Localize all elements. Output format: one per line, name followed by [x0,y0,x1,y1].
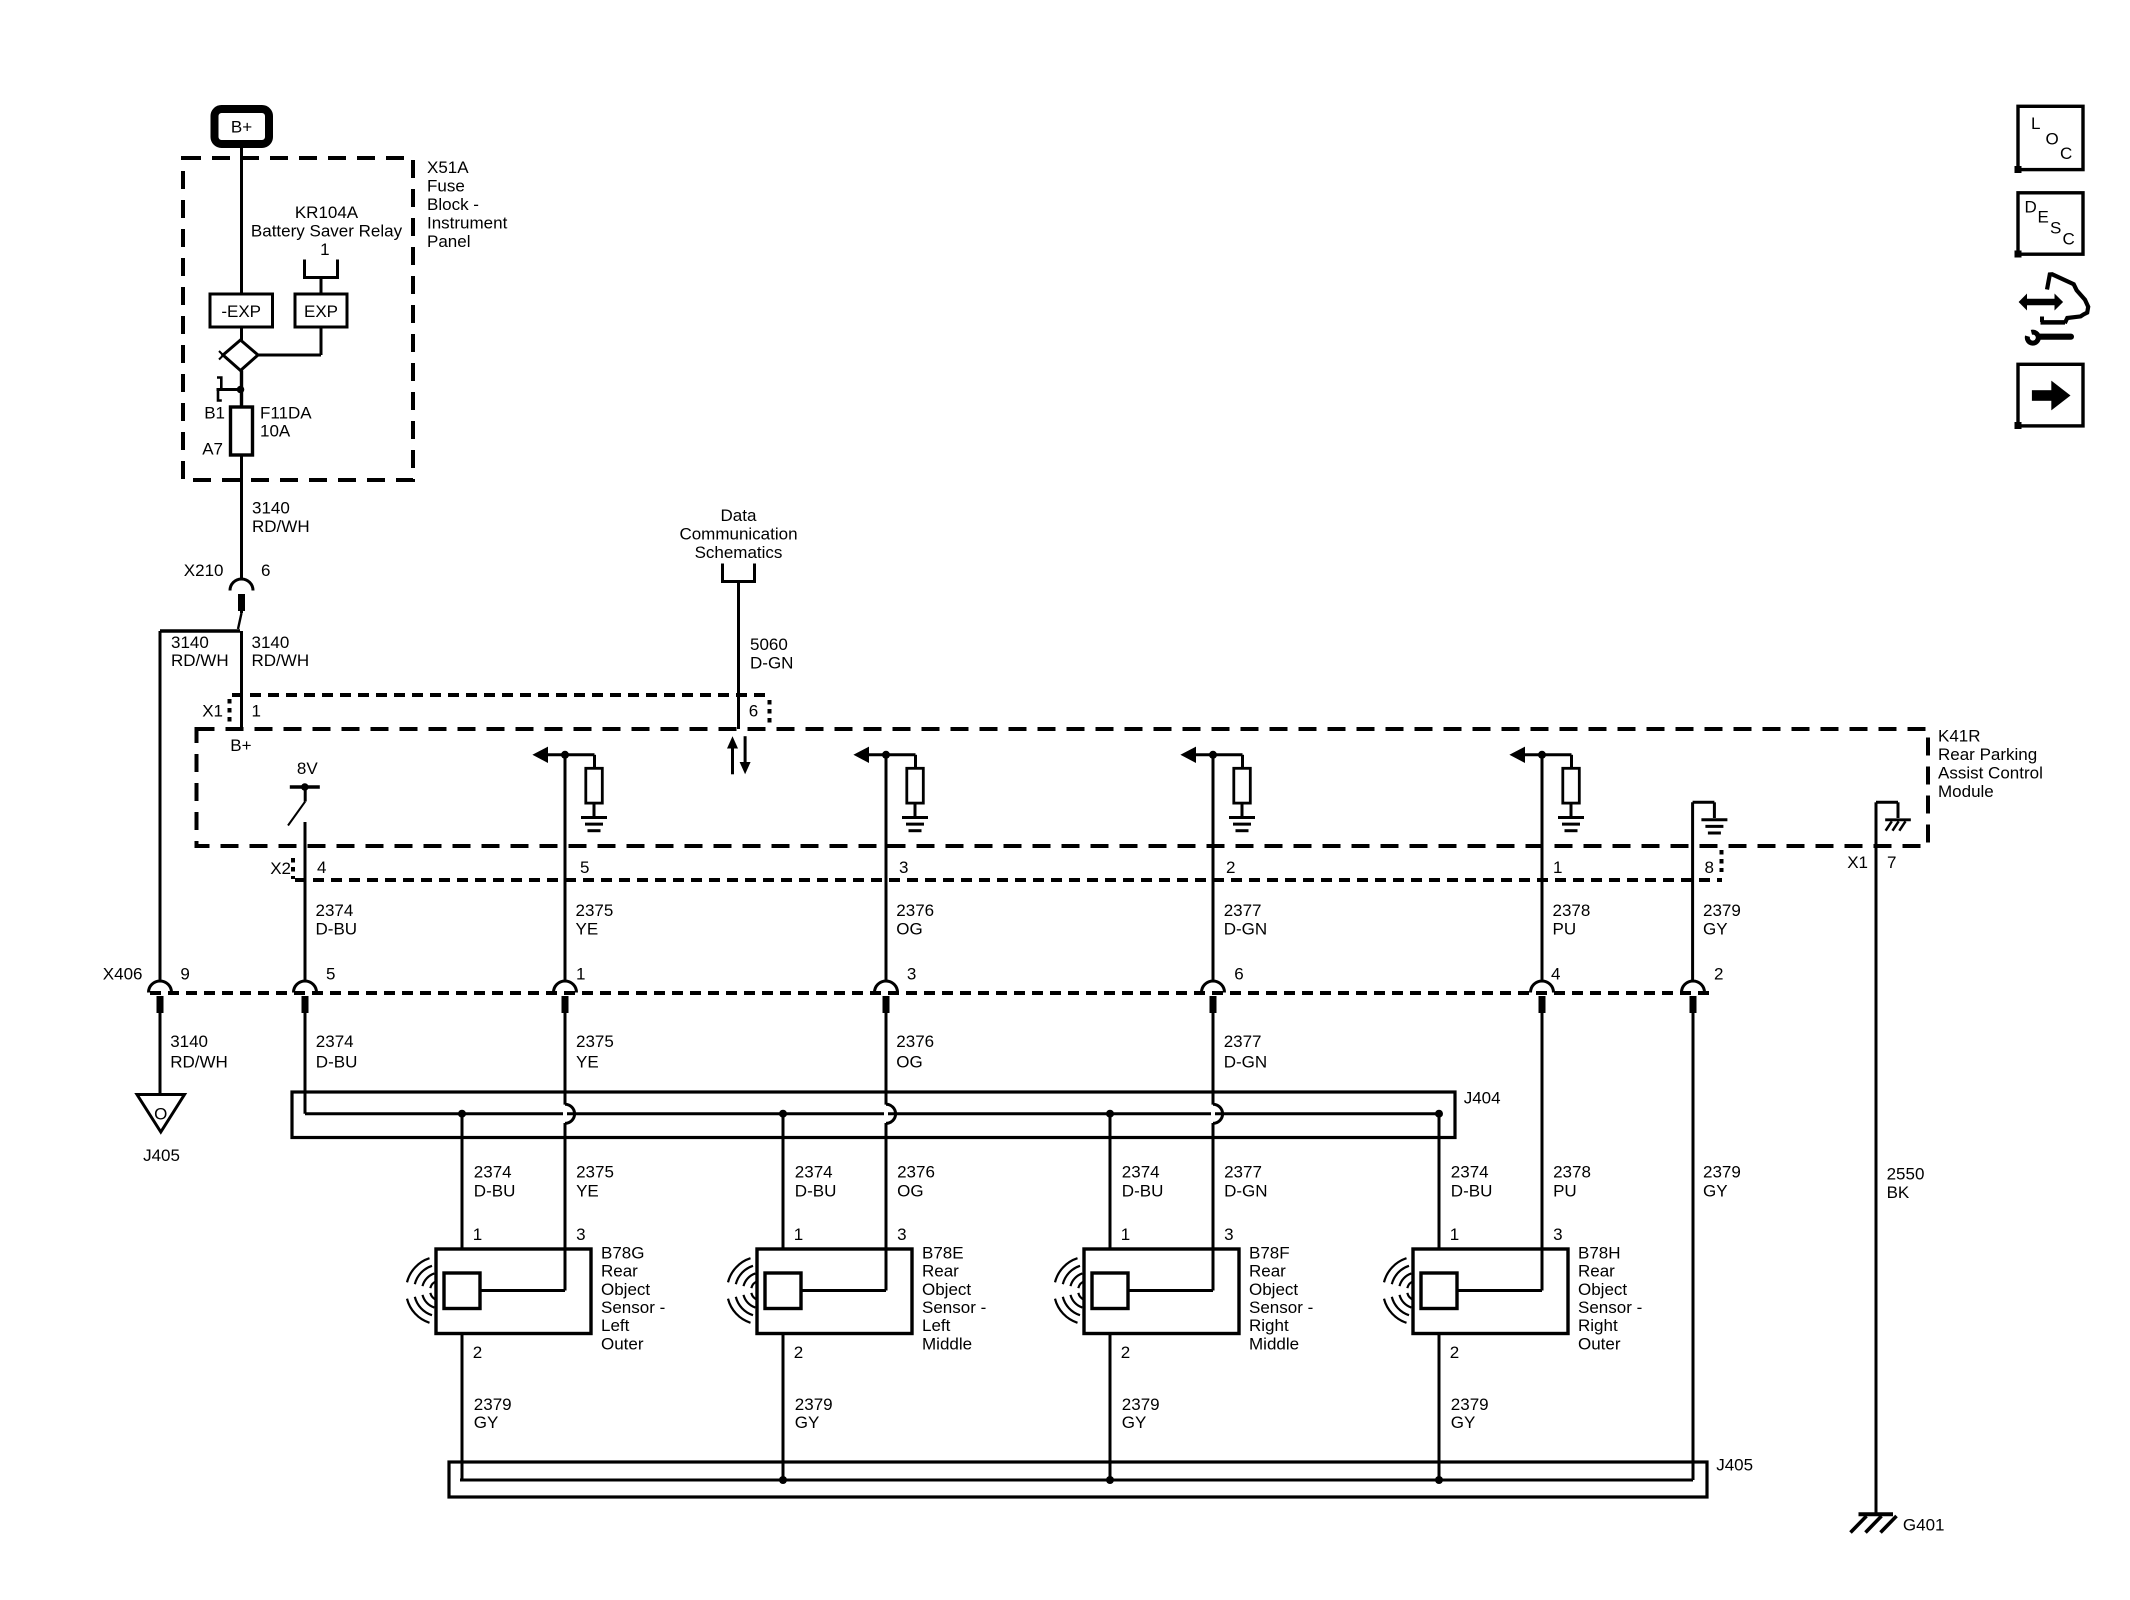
connector X406 terminal at x=1542 [1531,981,1554,1013]
junction clip symbol [217,378,241,401]
svg-text:GY: GY [795,1413,820,1432]
svg-text:10A: 10A [260,422,291,441]
icon button DESC [2015,193,2084,258]
rear object sensor B78H box [1413,1249,1568,1334]
svg-text:2379: 2379 [1451,1395,1489,1414]
switch 8V supply [288,759,320,826]
svg-text:7: 7 [1887,853,1896,872]
svg-text:Battery Saver Relay: Battery Saver Relay [251,222,403,241]
label 3140 RD/WH [252,499,310,537]
ultrasonic waves icon (B78E) [728,1258,758,1323]
svg-text:Sensor -: Sensor - [1249,1298,1313,1317]
connector X210 pin 6 [184,561,271,611]
wire X210 to K41R module [238,608,242,729]
labels circuits 2374-2379 above X406 [316,901,1741,939]
svg-text:3140: 3140 [170,1032,208,1051]
svg-text:Rear Parking: Rear Parking [1938,745,2037,764]
connector X406 terminal at x=160 [149,981,172,1013]
svg-text:2374: 2374 [795,1163,833,1182]
connector line X406 [150,991,1710,995]
svg-text:5: 5 [326,965,335,984]
label 5060 D-GN [750,635,793,673]
svg-text:C: C [2063,230,2075,249]
wire channel c from module to X406 [1212,755,1215,980]
svg-text:X1: X1 [1847,853,1868,872]
wire 8V switch to X2 pin 4 [304,822,307,980]
wire hop over J404 bus at x=1213 [1211,1104,1223,1124]
wire from B+ to fuse block [240,148,243,294]
ultrasonic waves icon (B78G) [407,1258,437,1323]
svg-text:D-BU: D-BU [1122,1182,1164,1201]
svg-text:2375: 2375 [576,1163,614,1182]
module internal chassis ground (pin 7) [1876,802,1911,846]
wire sensor B78H pin 2 to J405, circuit 2379 GY [1439,1334,1489,1481]
svg-text:3140: 3140 [252,499,290,518]
svg-text:2377: 2377 [1224,1163,1262,1182]
svg-text:3: 3 [897,1225,906,1244]
wire channel a from module to X406 [564,755,567,980]
module output channel b: arrow, pull-up resistor and ground [853,747,928,831]
svg-text:4: 4 [1551,965,1560,984]
labels circuits below J404 for sensor B78F [1122,1163,1268,1201]
connector line X1 [230,695,771,724]
label Data Communication Schematics [679,506,797,562]
serial data double arrow [727,736,751,774]
svg-text:B78G: B78G [601,1243,644,1262]
svg-text:2375: 2375 [576,901,614,920]
svg-text:Block -: Block - [427,195,479,214]
svg-text:2374: 2374 [1451,1163,1489,1182]
svg-text:YE: YE [576,1182,599,1201]
svg-text:GY: GY [1122,1413,1147,1432]
svg-text:OG: OG [896,920,922,939]
svg-text:1: 1 [1121,1225,1130,1244]
svg-text:X406: X406 [103,965,143,984]
icon button LOC [2015,106,2084,173]
fuse labels B1 A7 F11DA 10A [202,404,312,459]
svg-text:2379: 2379 [1703,901,1741,920]
wire sensor B78E pin 2 to J405, circuit 2379 GY [783,1334,833,1481]
svg-text:J405: J405 [1716,1455,1753,1474]
svg-text:2374: 2374 [316,1032,354,1051]
off-page bracket data communication [723,564,755,582]
svg-text:2: 2 [1226,858,1235,877]
svg-text:D-GN: D-GN [1224,920,1267,939]
svg-text:KR104A: KR104A [295,203,359,222]
svg-text:B78F: B78F [1249,1243,1290,1262]
svg-text:GY: GY [1703,1182,1728,1201]
svg-text:5: 5 [580,858,589,877]
svg-text:2376: 2376 [896,1032,934,1051]
wire serial data 5060 D-GN [737,582,740,730]
wire diamond to fuse F11DA [240,371,243,408]
svg-text:D-BU: D-BU [316,1053,358,1072]
labels circuits below J404 for sensor B78G [474,1163,614,1201]
power symbol B+ [215,109,270,144]
wire hop over J404 bus at x=565 [563,1104,575,1124]
svg-text:2374: 2374 [316,901,354,920]
svg-text:B+: B+ [231,118,252,137]
svg-text:D-GN: D-GN [1224,1053,1267,1072]
module output channel c: arrow, pull-up resistor and ground [1180,747,1255,831]
svg-text:S: S [2050,219,2061,238]
diamond junction node [219,340,258,371]
label X51A Fuse Block - Instrument Panel [427,158,508,251]
junction dot on J405 at x=1110 [1106,1476,1114,1484]
ultrasonic waves icon (B78F) [1055,1258,1085,1323]
relay KR104A coil bracket [305,260,338,295]
svg-text:O: O [2046,130,2059,149]
svg-text:8V: 8V [297,759,318,778]
svg-text:B1: B1 [204,404,225,423]
svg-text:OG: OG [896,1053,922,1072]
svg-text:1: 1 [320,240,329,259]
svg-text:Left: Left [922,1316,951,1335]
svg-text:B+: B+ [230,736,251,755]
connector X406 terminal at x=886 [875,981,898,1013]
svg-text:2375: 2375 [576,1032,614,1051]
svg-text:Middle: Middle [1249,1334,1299,1353]
svg-text:BK: BK [1887,1183,1910,1202]
svg-text:PU: PU [1553,1182,1577,1201]
junction dot and drop wire from J404 to sensor 4 pin 1 [1435,1110,1443,1249]
svg-text:2379: 2379 [474,1395,512,1414]
label K41R Rear Parking Assist Control Module [1938,727,2043,802]
ultrasonic waves icon (B78H) [1384,1258,1414,1323]
svg-text:Instrument: Instrument [427,214,508,233]
svg-text:F11DA: F11DA [260,404,312,423]
connector X406 terminal at x=305 [294,981,317,1013]
relay contact EXP [295,294,347,327]
junction dot and drop wire from J404 to sensor 1 pin 1 [458,1110,466,1249]
svg-text:3: 3 [1553,1225,1562,1244]
svg-text:4: 4 [317,858,326,877]
svg-text:G401: G401 [1903,1516,1945,1535]
svg-text:2: 2 [794,1343,803,1362]
svg-text:GY: GY [474,1413,499,1432]
svg-text:Outer: Outer [601,1334,644,1353]
svg-text:1: 1 [576,965,585,984]
svg-text:6: 6 [261,561,270,580]
svg-text:D-BU: D-BU [316,920,358,939]
svg-text:2376: 2376 [896,901,934,920]
svg-text:Left: Left [601,1316,630,1335]
icon button next arrow [2015,364,2084,429]
page connector triangle J405 (power feed) [137,1095,185,1166]
label sensor B78F name [1249,1243,1313,1353]
wire EXP to diamond node [258,327,321,355]
svg-text:6: 6 [749,702,758,721]
connector X406 terminal at x=565 [554,981,577,1013]
module output channel d: arrow, pull-up resistor and ground [1509,747,1584,831]
svg-text:2377: 2377 [1224,1032,1262,1051]
module output channel a: arrow, pull-up resistor and ground [532,747,607,831]
svg-text:8: 8 [1705,858,1714,877]
svg-text:OG: OG [897,1182,923,1201]
svg-text:D: D [2025,198,2037,217]
svg-text:2: 2 [1121,1343,1130,1362]
svg-text:Communication: Communication [679,525,797,544]
svg-text:3: 3 [907,965,916,984]
wire hop over J404 bus at x=886 [884,1104,896,1124]
svg-text:GY: GY [1703,920,1728,939]
svg-text:PU: PU [1553,920,1577,939]
wire circuit 2375 YE from X406 to sensor B78G pin 3 [564,1013,567,1291]
svg-text:C: C [2060,144,2072,163]
svg-text:Object: Object [601,1280,650,1299]
svg-text:2: 2 [1714,965,1723,984]
wire X1 pin 7 to ground G401, circuit 2550 BK [1876,846,1924,1515]
labels sensor pin numbers 1 and 3 (B78F) [1121,1225,1234,1244]
wire X406 pin 5 to splice pack J404 [304,1013,307,1114]
svg-text:YE: YE [576,1053,599,1072]
icon car with arrow and wrench [2019,274,2089,343]
svg-text:E: E [2038,208,2049,227]
svg-text:1: 1 [1553,858,1562,877]
label sensor B78H name [1578,1243,1642,1353]
labels circuits below J404 for sensor B78E [795,1163,935,1201]
svg-text:3: 3 [576,1225,585,1244]
svg-text:Sensor -: Sensor - [1578,1298,1642,1317]
svg-text:Rear: Rear [1249,1262,1286,1281]
wire sensor B78G pin 2 to J405, circuit 2379 GY [462,1334,512,1481]
label 3140 RD/WH right [252,633,310,670]
svg-text:2377: 2377 [1224,901,1262,920]
svg-text:Rear: Rear [601,1262,638,1281]
rear object sensor B78F box [1084,1249,1239,1334]
svg-text:EXP: EXP [304,302,338,321]
svg-text:5060: 5060 [750,635,788,654]
label J405 [1716,1455,1753,1474]
svg-text:Module: Module [1938,782,1994,801]
svg-text:O: O [154,1105,167,1124]
svg-text:L: L [2031,114,2040,133]
svg-text:Right: Right [1249,1316,1289,1335]
svg-text:Object: Object [1249,1280,1298,1299]
connector X406 terminal at x=1213 [1202,981,1225,1013]
svg-text:1: 1 [252,702,261,721]
svg-text:GY: GY [1451,1413,1476,1432]
svg-text:2: 2 [473,1343,482,1362]
labels sensor pin numbers 1 and 3 (B78E) [794,1225,907,1244]
wire circuit 2376 OG from X406 to sensor B78E pin 3 [885,1013,888,1291]
label 3140 RD/WH left branch [171,633,229,670]
wire circuit 2377 D-GN from X406 to sensor B78F pin 3 [1212,1013,1215,1291]
rear object sensor B78G box [436,1249,591,1334]
module internal ground (pin 8) [1693,802,1728,980]
svg-text:1: 1 [1450,1225,1459,1244]
labels X2 pins [270,858,1714,878]
junction dot on J405 at x=1439 [1435,1476,1443,1484]
label sensor B78E name [922,1243,986,1353]
svg-text:X1: X1 [202,702,223,721]
connector line X2 [293,850,1722,880]
junction dot on J405 at x=783 [779,1476,787,1484]
wire sensor B78F pin 2 to J405, circuit 2379 GY [1110,1334,1160,1481]
labels sensor pin numbers 1 and 3 (B78G) [473,1225,586,1244]
labels X1 pin 7 [1847,853,1896,872]
svg-text:9: 9 [180,965,189,984]
fuse F11DA 10A [231,407,253,455]
svg-text:Schematics: Schematics [695,543,783,562]
junction dot and drop wire from J404 to sensor 2 pin 1 [779,1110,787,1249]
label 2374 D-BU below X406 [316,1032,358,1071]
labels X1 pins 1 and 6 [202,702,758,721]
svg-text:RD/WH: RD/WH [170,1053,228,1072]
junction dot and drop wire from J404 to sensor 3 pin 1 [1106,1110,1114,1249]
svg-text:-EXP: -EXP [221,302,261,321]
svg-text:Rear: Rear [922,1262,959,1281]
svg-text:2550: 2550 [1887,1164,1925,1183]
svg-text:2378: 2378 [1553,1163,1591,1182]
svg-text:3140: 3140 [171,633,209,652]
svg-text:Sensor -: Sensor - [601,1298,665,1317]
relay KR104A label [251,203,403,259]
svg-text:RD/WH: RD/WH [171,651,229,670]
wire circuit 2378 PU from X406 to sensor B78H pin 3 [1541,1013,1544,1291]
svg-text:RD/WH: RD/WH [252,651,310,670]
splice pack J404 [292,1092,1455,1138]
label J404 [1464,1089,1501,1108]
svg-text:2374: 2374 [1122,1163,1160,1182]
svg-text:D-GN: D-GN [1224,1182,1267,1201]
label X406 and pin numbers [103,965,1724,984]
svg-text:Outer: Outer [1578,1334,1621,1353]
wire X406 pin 9 to J405 page triangle [159,1013,162,1095]
svg-text:3140: 3140 [252,633,290,652]
svg-text:2379: 2379 [1122,1395,1160,1414]
svg-text:Fuse: Fuse [427,177,465,196]
svg-text:X2: X2 [270,859,291,878]
relay contact -EXP [210,294,273,327]
svg-text:2: 2 [1450,1343,1459,1362]
wire fuse to connector X210, circuit 3140 RD/WH [240,455,243,578]
svg-text:Right: Right [1578,1316,1618,1335]
svg-text:J405: J405 [143,1146,180,1165]
labels circuits below J404 for sensor B78H [1451,1163,1591,1201]
svg-text:1: 1 [473,1225,482,1244]
wire channel b from module to X406 [885,755,888,980]
svg-text:2378: 2378 [1553,901,1591,920]
svg-text:2379: 2379 [1703,1163,1741,1182]
label 3140 RD/WH below X406 [170,1032,228,1071]
svg-text:Rear: Rear [1578,1262,1615,1281]
svg-text:1: 1 [794,1225,803,1244]
wire channel d from module to X406 [1541,755,1544,980]
svg-text:X210: X210 [184,561,224,580]
splice pack J405 [449,1462,1707,1497]
svg-text:3: 3 [899,858,908,877]
wire X406 pin 2 to J405, circuit 2379 GY [1693,1013,1741,1480]
svg-text:Assist Control: Assist Control [1938,764,2043,783]
ground G401 [1851,1514,1945,1534]
svg-text:D-BU: D-BU [795,1182,837,1201]
svg-text:RD/WH: RD/WH [252,517,310,536]
svg-text:X51A: X51A [427,158,469,177]
svg-text:Data: Data [721,506,757,525]
svg-text:D-GN: D-GN [750,654,793,673]
svg-text:3: 3 [1224,1225,1233,1244]
labels 2375 YE, 2376 OG, 2377 D-GN below X406 [576,1032,1267,1071]
svg-text:2376: 2376 [897,1163,935,1182]
label sensor B78G name [601,1243,665,1353]
svg-text:A7: A7 [202,440,223,459]
svg-text:D-BU: D-BU [474,1182,516,1201]
wire branch to X406 pin 9 [160,631,240,980]
svg-text:Object: Object [1578,1280,1627,1299]
junction dot [237,386,245,394]
svg-text:YE: YE [576,920,599,939]
svg-text:J404: J404 [1464,1089,1501,1108]
svg-text:D-BU: D-BU [1451,1182,1493,1201]
fuse block X51A [183,158,413,480]
svg-text:K41R: K41R [1938,727,1981,746]
rear object sensor B78E box [757,1249,912,1334]
svg-text:6: 6 [1234,965,1243,984]
svg-text:B78E: B78E [922,1243,964,1262]
labels sensor pin numbers 1 and 3 (B78H) [1450,1225,1563,1244]
svg-text:Sensor -: Sensor - [922,1298,986,1317]
svg-text:Panel: Panel [427,232,470,251]
svg-text:Object: Object [922,1280,971,1299]
svg-text:2379: 2379 [795,1395,833,1414]
node B+ module pin [230,736,251,755]
connector X406 terminal at x=1693 [1682,981,1705,1013]
module K41R Rear Parking Assist Control Module [197,729,1929,846]
svg-text:B78H: B78H [1578,1243,1621,1262]
svg-text:2374: 2374 [474,1163,512,1182]
svg-text:Middle: Middle [922,1334,972,1353]
wire -EXP to diamond node [240,327,243,340]
